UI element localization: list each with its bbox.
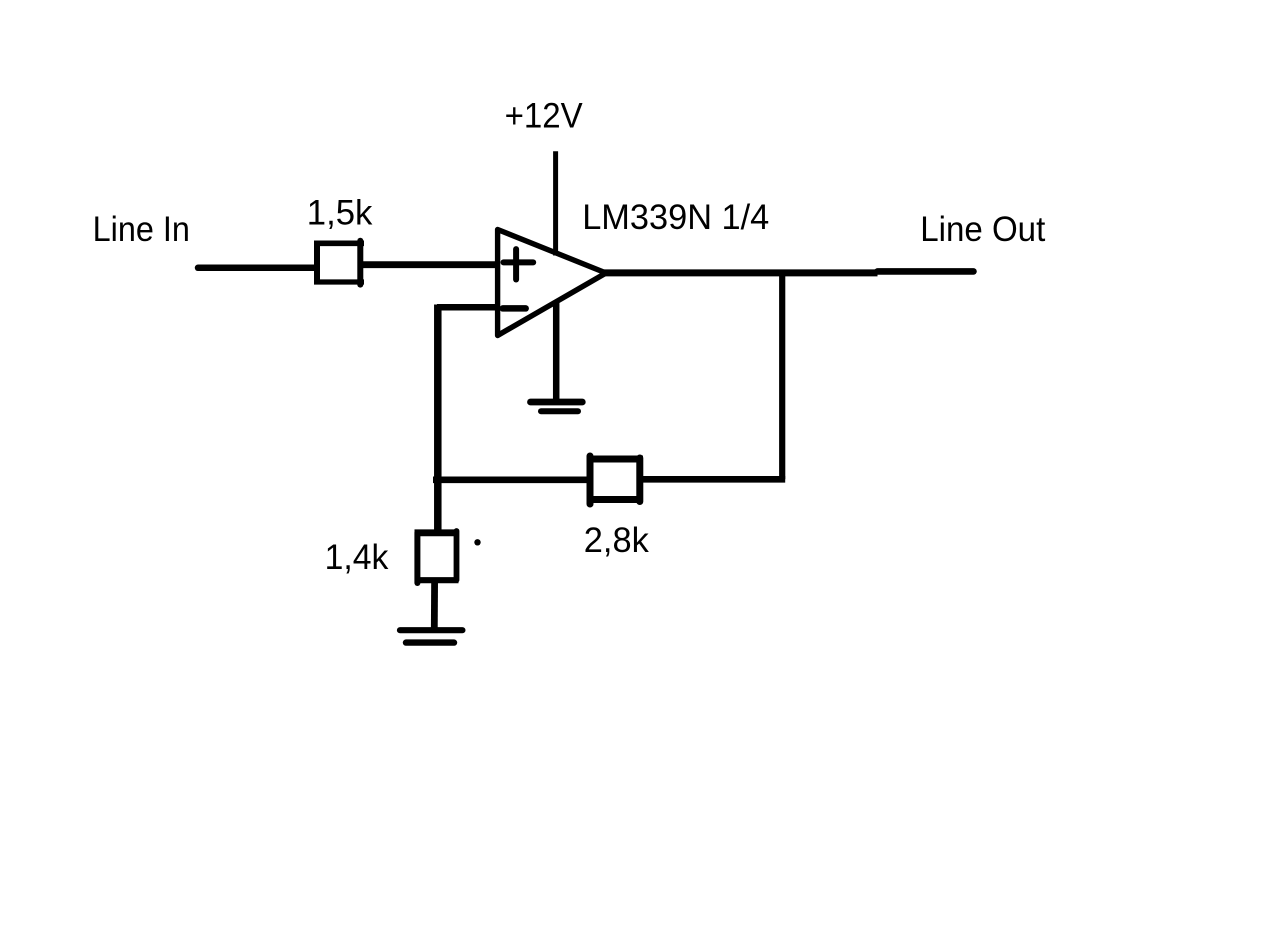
svg-text:Line Out: Line Out (920, 210, 1045, 249)
op-amp U1 LM339N (triangle) (498, 230, 606, 336)
svg-text:LM339N 1/4: LM339N 1/4 (582, 198, 769, 237)
svg-text:1,5k: 1,5k (307, 194, 373, 233)
junction dot near node A (474, 539, 480, 545)
ground symbol under R3 (400, 630, 462, 642)
resistor R3 1,4k (box) (415, 531, 460, 583)
wire: R2 right lead to feedback vertical (643, 476, 785, 483)
U1 + input symbol (504, 249, 534, 279)
resistor R2 2,8k (box) (587, 456, 644, 504)
ground symbol under U1 (531, 402, 583, 411)
wire: node A to R2 left lead (433, 476, 588, 483)
wire: U1 V- pin down to ground (553, 302, 560, 405)
U1 - input symbol (503, 305, 526, 312)
svg-text:2,8k: 2,8k (584, 521, 649, 560)
wire: U1 - input horizontal stub (437, 304, 497, 311)
svg-text:+12V: +12V (505, 97, 584, 136)
svg-text:1,4k: 1,4k (325, 538, 389, 577)
svg-text:Line In: Line In (93, 210, 190, 249)
wire: feedback vertical from output node (779, 273, 785, 479)
wire: U1 output to Line Out (604, 271, 974, 273)
wire: +12V supply to U1 V+ pin (553, 151, 558, 255)
wire: R1 to U1 + input (362, 261, 497, 268)
wire: R3 bottom lead to ground (431, 581, 438, 628)
wire: input from Line In to R1 (198, 265, 316, 272)
resistor R1 1,5k (box) (314, 241, 364, 285)
wire: inverting input vertical through node A to R3 (434, 305, 442, 537)
